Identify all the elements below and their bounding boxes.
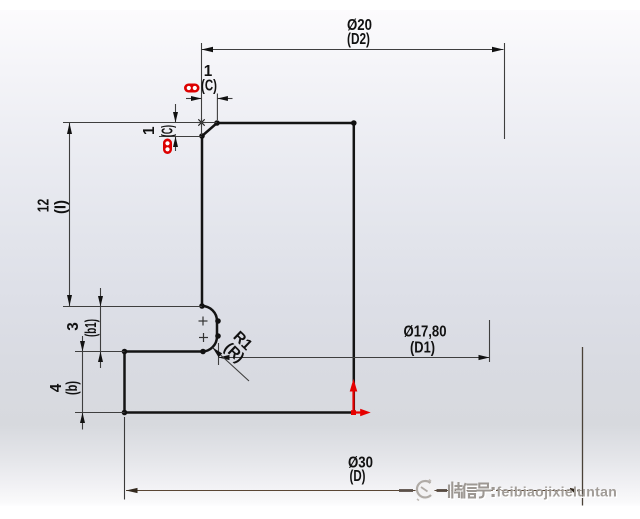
- dim b bottom arrowhead: [80, 413, 85, 424]
- D2 right arrowhead: [492, 47, 504, 52]
- vertex (217,336.5): [215, 333, 221, 339]
- D2 left arrowhead: [202, 47, 214, 52]
- chamfer-v extension line: [159, 136, 202, 138]
- vertex (124.5,412): [122, 410, 128, 416]
- vertex (217,321): [215, 318, 221, 324]
- D1 left arrowhead: [219, 355, 230, 360]
- D1 dim line: [219, 357, 490, 359]
- chamfer-h dim tail left: [186, 98, 202, 100]
- cylinder D2 left edge: [201, 136, 204, 306]
- D1 right arrowhead: [479, 355, 490, 360]
- R1 leader arrowhead: [213, 348, 223, 358]
- fillet arc R1 lower: [202, 337, 217, 352]
- groove wall edge: [216, 321, 219, 337]
- D right extension line: [582, 347, 584, 506]
- white bottom bar: [0, 506, 640, 519]
- arc center mark upper: [199, 317, 208, 326]
- chamfer-h left arrowhead: [191, 96, 202, 101]
- origin X axis arrow: [354, 411, 362, 413]
- chamfer-h right arrowhead: [217, 96, 228, 101]
- watermark chinese text 微信号:: [449, 483, 495, 499]
- dim I line: [69, 123, 71, 306]
- D1 right extension line: [489, 320, 491, 362]
- D2 right extension line: [504, 43, 506, 139]
- svg-text:(D1): (D1): [410, 340, 435, 357]
- chamfer-h dim tail right: [217, 98, 232, 100]
- vertex (202,136): [199, 133, 205, 139]
- svg-text:1: 1: [141, 126, 158, 135]
- chamfer-v top arrowhead: [173, 112, 178, 123]
- svg-text:(I): (I): [53, 200, 70, 214]
- vertex (124.5,351.5): [122, 349, 128, 355]
- bottom face edge: [125, 411, 354, 414]
- vertex (353.8,123): [351, 120, 357, 126]
- chamfer-v red relation icon: [163, 139, 172, 155]
- D left extension line: [124, 417, 126, 500]
- origin point square: [351, 410, 356, 415]
- svg-text:Ø17,80: Ø17,80: [404, 324, 447, 341]
- extension line y=412: [75, 412, 125, 414]
- chamfer-h right extension line: [216, 94, 218, 121]
- svg-text:feibiaojixieluntan: feibiaojixieluntan: [497, 484, 618, 500]
- origin Y axis arrow: [352, 391, 354, 413]
- dim b1 line: [100, 288, 102, 368]
- watermark dash 1: [399, 489, 413, 492]
- svg-text:(b): (b): [64, 381, 81, 395]
- dim b1 top arrowhead: [98, 296, 103, 307]
- svg-text:(C): (C): [201, 78, 217, 95]
- step face edge: [125, 350, 203, 353]
- svg-text:(D2): (D2): [347, 31, 370, 48]
- D2 dim line: [202, 49, 504, 51]
- virtual sharp star: [197, 118, 206, 127]
- vertex (217,123): [214, 120, 220, 126]
- D right arrowhead: [570, 488, 582, 493]
- chamfer-v dim tail top: [175, 104, 177, 123]
- vertex (203,351.5): [200, 349, 206, 355]
- top face edge: [217, 122, 354, 125]
- extension line y=351.5: [75, 351, 125, 353]
- D left arrowhead: [126, 488, 138, 493]
- svg-text:(b1): (b1): [83, 319, 100, 337]
- dim b1 bottom arrowhead: [98, 352, 103, 363]
- svg-text:3: 3: [65, 322, 82, 331]
- flange left edge: [123, 352, 126, 413]
- fillet arc R1 upper: [202, 306, 217, 321]
- D dim line: [126, 490, 582, 492]
- extension line y=123: [63, 122, 217, 124]
- chamfer edge: [202, 123, 217, 136]
- dim I top arrowhead: [67, 123, 72, 134]
- dim b top arrowhead: [80, 341, 85, 352]
- dim I bottom arrowhead: [67, 295, 72, 306]
- watermark dash 2: [437, 489, 448, 492]
- R1 leader line: [213, 348, 249, 381]
- svg-text:(C): (C): [160, 125, 177, 137]
- chamfer-h red relation icon: [184, 84, 200, 93]
- extension line y=306: [63, 306, 202, 308]
- svg-text:(D): (D): [350, 468, 366, 485]
- vertex dots: [122, 120, 357, 415]
- D2 left extension line: [201, 43, 203, 135]
- chamfer-v bottom arrowhead: [173, 137, 178, 148]
- chamfer-v dim tail bottom: [175, 137, 177, 152]
- svg-text:12: 12: [36, 199, 53, 213]
- right edge (axis side): [353, 123, 356, 413]
- white top bar: [0, 0, 640, 10]
- vertex (202,306): [199, 303, 205, 309]
- svg-text:4: 4: [48, 383, 65, 392]
- D1 left extension line: [218, 343, 220, 365]
- watermark pen swirl icon: [416, 480, 435, 501]
- dim b line: [82, 336, 84, 430]
- arc center mark lower: [199, 333, 208, 342]
